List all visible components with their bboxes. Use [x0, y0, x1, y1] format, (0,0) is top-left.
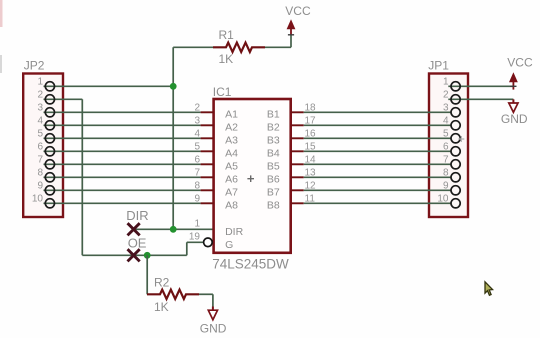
connector JP2 body: [23, 74, 63, 218]
ground symbol GND (R2): [208, 307, 217, 320]
svg-text:2: 2: [194, 102, 200, 113]
IC1 pin 5 stub (A4): [201, 150, 214, 152]
JP2 pin 5: [45, 134, 54, 143]
wire R1 left: [173, 46, 213, 48]
wire IC1 B1 to JP1 pin 3: [304, 111, 451, 113]
wire JP2 pin4 to IC1 A2: [44, 124, 201, 126]
svg-text:8: 8: [443, 168, 449, 179]
svg-text:6: 6: [443, 142, 449, 153]
wire IC1 B5 to JP1 pin 7: [304, 163, 451, 165]
connector JP1 body: [429, 74, 468, 218]
JP2 pin 9: [45, 186, 54, 195]
svg-text:5: 5: [194, 141, 200, 152]
svg-text:VCC: VCC: [507, 55, 533, 69]
ground symbol GND (JP1): [509, 99, 518, 112]
IC1 pin 18 stub (B1): [291, 111, 304, 113]
JP1 pin 9: [451, 186, 460, 195]
svg-text:JP2: JP2: [24, 59, 45, 73]
svg-text:1: 1: [194, 218, 200, 229]
JP2 pin 3: [45, 108, 54, 117]
wire JP2 pin7 to IC1 A5: [44, 163, 201, 165]
svg-text:3: 3: [37, 103, 43, 114]
wire JP2 pin2 vertical down to OE row: [81, 99, 83, 255]
svg-text:9: 9: [194, 193, 200, 204]
IC1 pin 4 stub (A3): [201, 137, 214, 139]
wire JP2 pin6 to IC1 A4: [44, 150, 201, 152]
IC1 pin 8 stub (A7): [201, 189, 214, 191]
power symbol VCC (top): [287, 20, 295, 35]
svg-text:2: 2: [443, 90, 449, 101]
wire IC1 B4 to JP1 pin 6: [304, 150, 451, 152]
wire IC1 B2 to JP1 pin 4: [304, 124, 451, 126]
svg-text:1K: 1K: [154, 300, 169, 314]
svg-text:B2: B2: [267, 121, 280, 133]
svg-text:7: 7: [194, 167, 200, 178]
IC1 pin 13 stub (B6): [291, 176, 304, 178]
svg-text:A3: A3: [225, 134, 238, 146]
svg-text:B3: B3: [267, 134, 280, 146]
svg-text:7: 7: [37, 155, 43, 166]
svg-text:GND: GND: [200, 322, 227, 336]
svg-text:A6: A6: [225, 173, 238, 185]
svg-text:1: 1: [37, 77, 43, 88]
svg-text:B1: B1: [267, 108, 280, 120]
junction node OE / R2: [144, 252, 151, 259]
svg-text:B5: B5: [267, 160, 280, 172]
svg-text:A7: A7: [225, 186, 238, 198]
svg-text:4: 4: [194, 128, 200, 139]
JP2 pin 10: [45, 199, 54, 208]
IC1 pin 2 stub (A1): [201, 111, 214, 113]
resistor R1: [213, 43, 265, 52]
svg-text:9: 9: [443, 181, 449, 192]
svg-text:6: 6: [37, 142, 43, 153]
svg-text:8: 8: [194, 180, 200, 191]
svg-text:2: 2: [37, 90, 43, 101]
svg-text:7: 7: [443, 155, 449, 166]
wire R1 right to VCC riser: [265, 46, 291, 48]
svg-text:IC1: IC1: [213, 85, 232, 99]
svg-text:B6: B6: [267, 173, 280, 185]
svg-text:19: 19: [189, 231, 201, 242]
junction node DIR rail meets DIR wire: [170, 226, 177, 233]
svg-text:9: 9: [37, 181, 43, 192]
svg-text:B4: B4: [267, 147, 280, 159]
svg-text:B7: B7: [267, 186, 280, 198]
wire OE junction down to R2: [146, 255, 148, 294]
IC1 pin 3 stub (A2): [201, 124, 214, 126]
svg-text:OE: OE: [128, 235, 147, 250]
svg-text:10: 10: [437, 194, 449, 205]
IC1 pin 17 stub (B2): [291, 124, 304, 126]
JP2 pin 8: [45, 173, 54, 182]
svg-text:1K: 1K: [219, 52, 234, 66]
svg-text:R1: R1: [219, 28, 235, 42]
svg-text:R2: R2: [154, 276, 170, 290]
wire IC1 B3 to JP1 pin 5: [304, 137, 451, 139]
JP1 pin 10: [451, 199, 460, 208]
wire DIR rail vertical (R1 to IC DIR pin): [172, 47, 174, 229]
wire R2 right corner down: [199, 293, 213, 295]
IC1 pin 7 stub (A6): [201, 176, 214, 178]
svg-text:G: G: [225, 239, 233, 251]
svg-text:VCC: VCC: [285, 4, 311, 18]
wire JP1 pin2 to GND: [448, 98, 513, 100]
svg-text:74LS245DW: 74LS245DW: [212, 256, 289, 271]
IC1 pin 16 stub (B3): [291, 137, 304, 139]
wire JP1 pin1 to VCC: [448, 85, 513, 87]
wire JP2 pin10 to IC1 A8: [44, 202, 201, 204]
wire IC1 B8 to JP1 pin 10: [304, 202, 451, 204]
inverting bubble on pin 19: [204, 238, 213, 247]
svg-text:JP1: JP1: [428, 58, 449, 72]
JP1 pin 8: [451, 173, 460, 182]
junction node JP2.1/DIR rail: [170, 83, 177, 90]
X marker OE wire: [128, 249, 140, 261]
wire VCC riser: [290, 35, 292, 48]
JP1 pin 1: [451, 82, 460, 91]
wire JP2 pin5 to IC1 A3: [44, 137, 201, 139]
wire IC1 B7 to JP1 pin 9: [304, 189, 451, 191]
svg-text:5: 5: [37, 129, 43, 140]
IC1 pin 15 stub (B4): [291, 150, 304, 152]
JP1 pin 4: [451, 121, 460, 130]
op IC1 74LS245 body: [214, 99, 291, 253]
svg-text:4: 4: [443, 116, 449, 127]
JP1 pin 6: [451, 147, 460, 156]
resistor R2: [147, 290, 199, 299]
svg-text:10: 10: [32, 194, 44, 205]
JP1 pin 5: [451, 134, 460, 143]
power symbol VCC (JP1): [510, 73, 518, 89]
wire JP2 pin9 to IC1 A7: [44, 189, 201, 191]
svg-text:3: 3: [443, 103, 449, 114]
svg-text:A5: A5: [225, 160, 238, 172]
IC1 pin 14 stub (B5): [291, 163, 304, 165]
wire G row into bubble: [187, 241, 204, 243]
svg-text:6: 6: [194, 154, 200, 165]
wire JP2 pin1 to DIR rail junction: [44, 85, 174, 87]
svg-text:1: 1: [443, 77, 449, 88]
mouse cursor: [485, 282, 493, 296]
wire JP2 pin3 to IC1 A1: [44, 111, 201, 113]
JP2 pin 2: [45, 95, 54, 104]
svg-text:4: 4: [37, 116, 43, 127]
wire riser OE to G row: [186, 242, 188, 255]
svg-text:GND: GND: [501, 112, 528, 126]
JP2 pin 1: [45, 82, 54, 91]
wire JP2 pin2 horizontal: [44, 98, 83, 100]
wire IC1 B6 to JP1 pin 8: [304, 176, 451, 178]
svg-text:A1: A1: [225, 108, 238, 120]
IC1 pin 12 stub (B7): [291, 189, 304, 191]
svg-text:DIR: DIR: [225, 226, 244, 238]
svg-text:8: 8: [37, 168, 43, 179]
svg-text:5: 5: [443, 129, 449, 140]
svg-text:3: 3: [194, 115, 200, 126]
X marker DIR wire end: [128, 223, 140, 235]
wire DIR net (X to IC pin 1): [134, 228, 214, 230]
JP1 pin 7: [451, 160, 460, 169]
wire JP2 pin8 to IC1 A6: [44, 176, 201, 178]
IC1 pin 6 stub (A5): [201, 163, 214, 165]
JP1 origin cross: [458, 136, 464, 142]
JP1 pin 2: [451, 95, 460, 104]
IC1 pin 11 stub (B8): [291, 202, 304, 204]
svg-text:B8: B8: [267, 199, 280, 211]
JP1 pin 3: [451, 108, 460, 117]
svg-text:A2: A2: [225, 121, 238, 133]
JP2 pin 6: [45, 147, 54, 156]
JP2 pin 4: [45, 121, 54, 130]
IC1 pin 9 stub (A8): [201, 202, 214, 204]
wire OE row (JP2.2 riser to G riser): [82, 254, 187, 256]
svg-text:A4: A4: [225, 147, 238, 159]
JP2 pin 7: [45, 160, 54, 169]
svg-text:A8: A8: [225, 199, 238, 211]
IC1 origin cross: [247, 175, 254, 182]
svg-text:DIR: DIR: [126, 208, 148, 223]
